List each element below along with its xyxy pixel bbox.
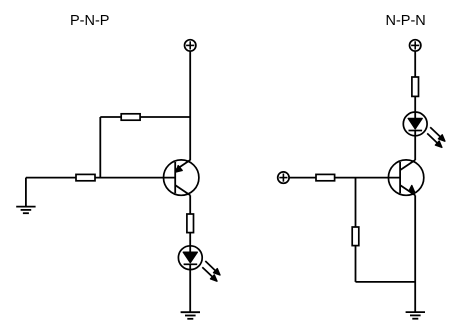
wire LED to collector [414, 131, 416, 161]
wire feedback vertical [99, 117, 101, 178]
ground (PNP LED) [181, 312, 200, 319]
resistor R4 (LED series) [412, 77, 419, 96]
transistor Q2 (NPN) [388, 160, 423, 195]
wire ground to resistor R1 [26, 177, 76, 179]
wire bottom horizontal [356, 281, 416, 283]
wire R5 to base [335, 177, 401, 179]
ground (PNP input) [16, 178, 35, 214]
supply terminal + (NPN base) [278, 172, 289, 183]
svg-text:N-P-N: N-P-N [386, 13, 426, 29]
wire feedback left segment [100, 116, 121, 118]
resistor R5 (base) [316, 174, 335, 180]
wire supply to emitter [189, 51, 191, 160]
wire R6 down [355, 246, 357, 282]
wire R4 to LED D2 [414, 96, 416, 118]
resistor R1 (base) [76, 174, 95, 180]
supply terminal +V (PNP) [185, 40, 196, 51]
wire emitter to ground [414, 195, 416, 312]
resistor R2 (feedback) [121, 114, 140, 120]
wire R3 to LED D1 [189, 233, 191, 253]
wire junction to R6 [355, 178, 357, 227]
transistor Q1 (PNP) [164, 160, 199, 195]
wire LED to ground [189, 264, 191, 312]
LED D1 [178, 246, 220, 281]
ground (NPN emitter) [406, 312, 425, 319]
wire terminal to R5 [289, 177, 316, 179]
resistor R3 (collector) [187, 214, 194, 233]
LED D2 [403, 112, 445, 147]
wire collector to R3 [189, 195, 191, 214]
resistor R6 (base-emitter) [352, 227, 359, 246]
wire supply to R4 [414, 51, 416, 77]
wire R1 to base [95, 177, 175, 179]
wire feedback right segment [140, 116, 190, 118]
supply terminal +V (NPN) [410, 40, 421, 51]
svg-text:P-N-P: P-N-P [70, 13, 109, 29]
